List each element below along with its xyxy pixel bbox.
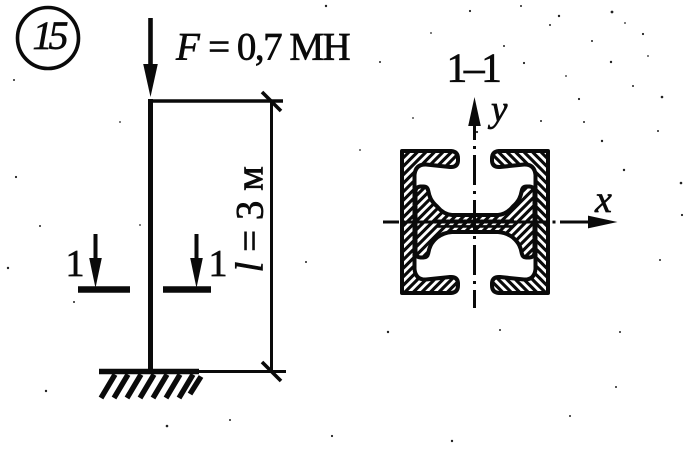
svg-text:1: 1 — [66, 243, 85, 285]
svg-text:x: x — [594, 179, 612, 221]
svg-text:1–1: 1–1 — [446, 45, 500, 91]
svg-text:l = 3 м: l = 3 м — [229, 166, 272, 272]
svg-text:1: 1 — [209, 243, 228, 285]
svg-text:F = 0,7 МН: F = 0,7 МН — [175, 26, 351, 69]
svg-text:15: 15 — [33, 13, 68, 58]
svg-text:y: y — [487, 89, 508, 130]
